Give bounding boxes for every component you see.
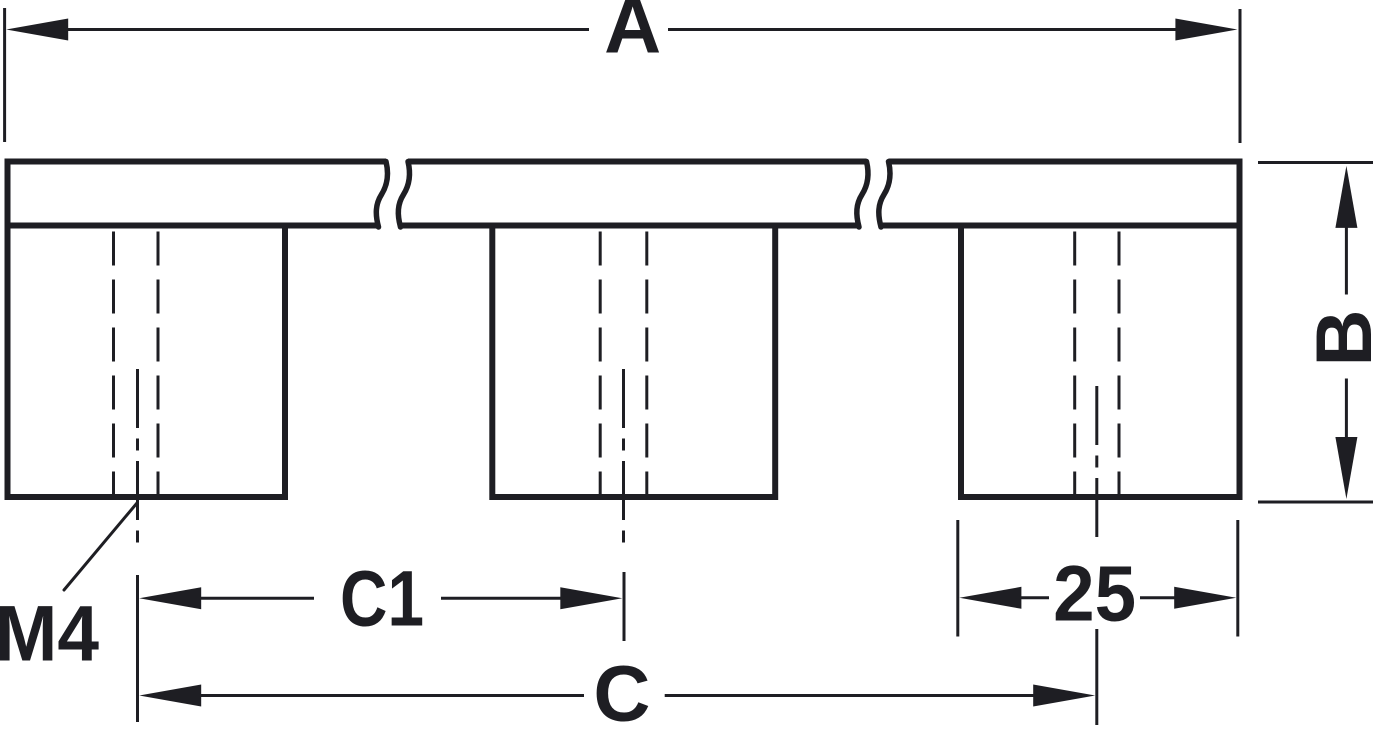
post 3 hidden hole line right <box>1118 232 1121 498</box>
post 1 hidden hole line left <box>112 232 115 498</box>
post 1 hidden hole line right <box>157 232 160 498</box>
break 2 right curve <box>879 162 890 228</box>
dimension C arrow left <box>139 685 201 707</box>
break 1 left curve <box>376 162 387 228</box>
post 3 hidden hole line left <box>1073 232 1076 498</box>
dimension C1 line left segment <box>199 597 314 600</box>
break 1 right curve <box>398 162 409 228</box>
dimension A extension line right <box>1239 9 1242 143</box>
dimension B line top segment <box>1345 226 1348 295</box>
dimension C1 arrow left <box>139 587 201 609</box>
dimension C line right segment <box>665 694 1035 697</box>
dimension 25 extension line left <box>956 520 959 637</box>
dimension A line left segment <box>66 28 589 31</box>
dimension A arrow right <box>1175 19 1237 41</box>
break 2 left curve <box>857 162 868 228</box>
svg-text:25: 25 <box>1053 549 1136 638</box>
svg-text:B: B <box>1299 309 1373 366</box>
dimension C1 extension line right (post 2 center) <box>623 572 626 641</box>
dimension C arrow right <box>1033 685 1095 707</box>
dimension C line left segment <box>199 694 584 697</box>
bar segment 3 with post 3 outline <box>889 162 1240 498</box>
dimension C extension line right (post 3 center) <box>1095 629 1098 725</box>
M4 leader line <box>64 503 137 590</box>
dimension B arrow bottom <box>1335 437 1357 499</box>
dimension A arrow left <box>6 19 68 41</box>
bar segment 3 bottom line <box>881 223 1243 229</box>
dimension 25 arrow right <box>1174 587 1236 609</box>
post 2 outline <box>492 226 775 498</box>
dimension B extension line bottom <box>1258 501 1373 504</box>
svg-text:M4: M4 <box>0 589 99 678</box>
dimension C1 extension line left (post 1 center) <box>136 575 139 722</box>
svg-text:C: C <box>593 649 650 730</box>
dimension B extension line top <box>1258 161 1373 164</box>
post 1 centerline <box>136 369 139 543</box>
dimension C1 line right segment <box>441 597 563 600</box>
post 2 hidden hole line right <box>645 232 648 498</box>
dimension B arrow top <box>1335 166 1357 228</box>
dimension 25 extension line right <box>1236 520 1239 637</box>
svg-text:A: A <box>604 0 661 70</box>
bar segment 1 bottom line <box>5 223 378 229</box>
post 2 centerline <box>622 369 625 543</box>
post 2 hidden hole line left <box>599 232 602 498</box>
dimension C1 arrow right <box>560 587 622 609</box>
dimension 25 line left segment <box>1019 596 1049 599</box>
bar segment 2 bottom line <box>401 223 859 229</box>
post 3 centerline <box>1095 386 1098 538</box>
handle bar segment 1 with post 1 outline <box>8 162 387 498</box>
svg-text:C1: C1 <box>340 553 424 642</box>
dimension A line right segment <box>668 28 1178 31</box>
dimension 25 arrow left <box>959 587 1021 609</box>
dimension 25 line right segment <box>1140 596 1178 599</box>
dimension B line bottom segment <box>1345 379 1348 439</box>
dimension A extension line left <box>3 8 6 142</box>
bar segment 2 top line <box>408 159 867 165</box>
